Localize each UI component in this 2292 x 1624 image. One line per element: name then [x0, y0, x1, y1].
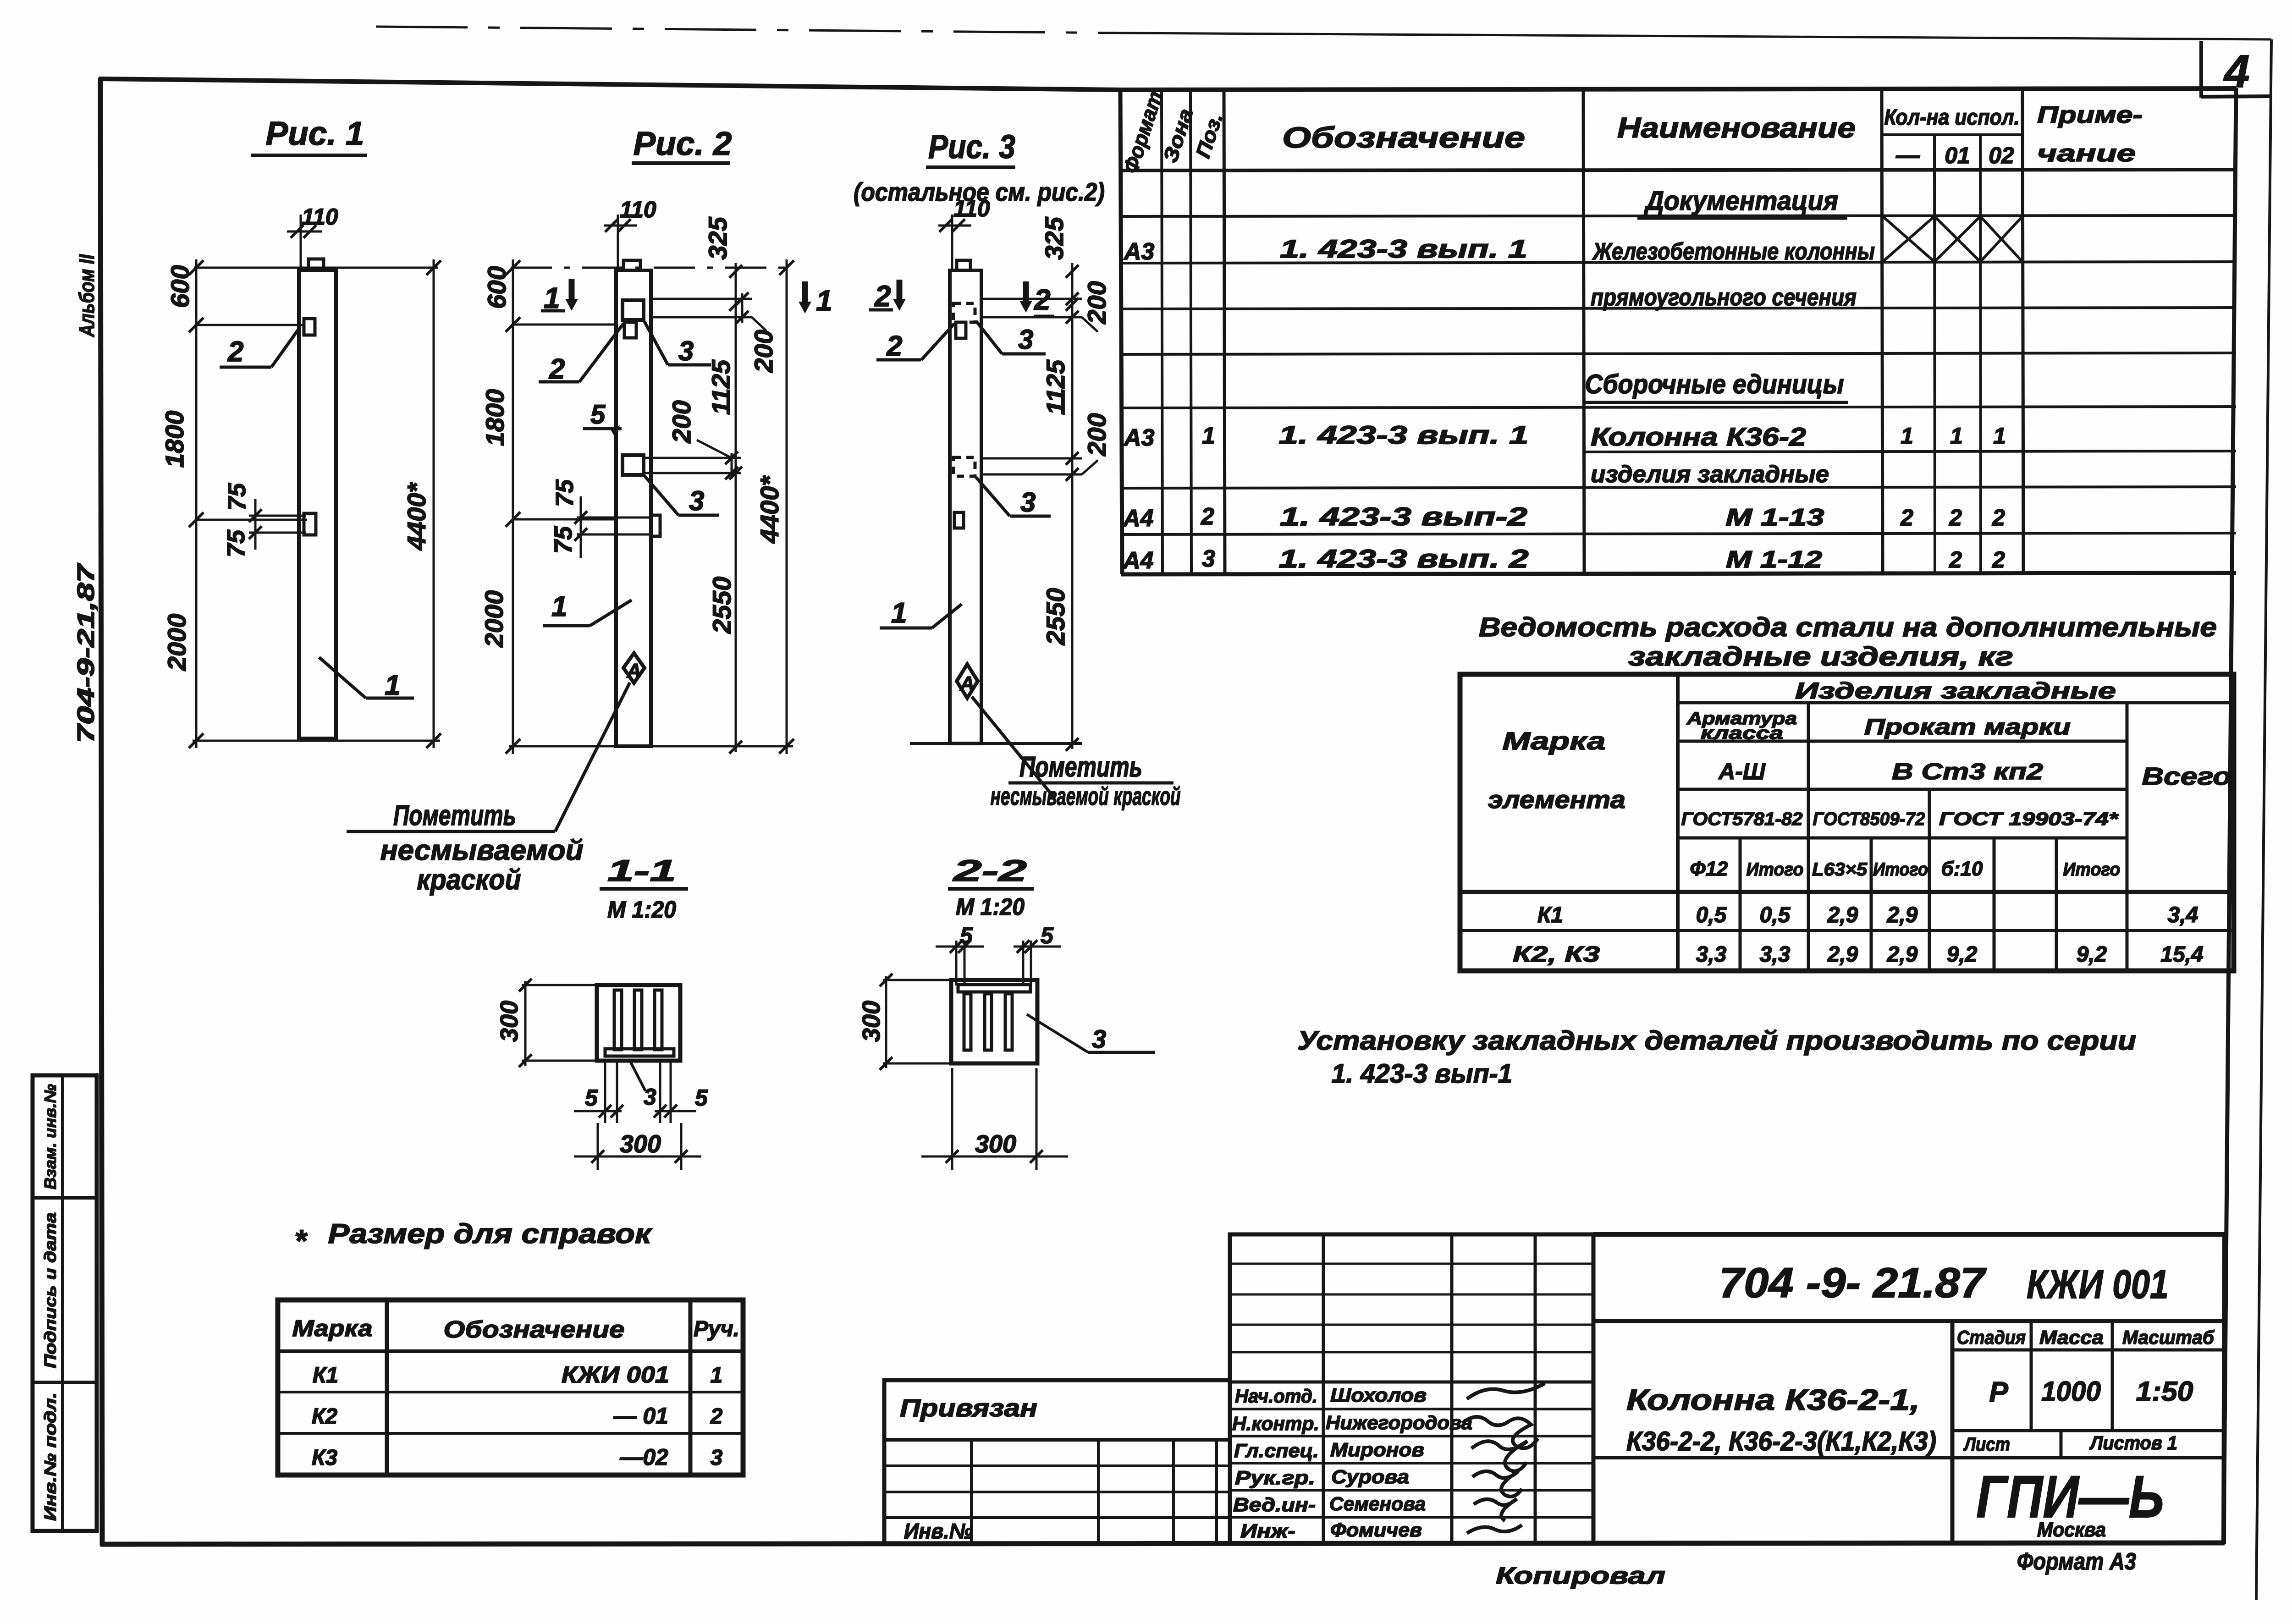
svg-text:Обозначение: Обозначение: [1282, 121, 1525, 154]
svg-text:— 01: — 01: [613, 1403, 668, 1429]
section 1-1 dims 5 3 5: [604, 1061, 606, 1123]
svg-text:Привязан: Привязан: [900, 1394, 1037, 1422]
svg-text:Установку закладных деталей: Установку закладных деталей производить …: [1297, 1026, 2136, 1056]
svg-text:1: 1: [816, 284, 832, 317]
svg-text:2: 2: [1900, 505, 1913, 530]
svg-text:Н.контр.: Н.контр.: [1232, 1413, 1319, 1434]
svg-text:Колонна К36-2-1,: Колонна К36-2-1,: [1626, 1383, 1920, 1416]
svg-text:2,9: 2,9: [1827, 903, 1858, 927]
svg-text:2000: 2000: [162, 614, 191, 672]
svg-text:М 1:20: М 1:20: [956, 894, 1025, 920]
svg-text:1-1: 1-1: [607, 853, 676, 887]
svg-text:3: 3: [689, 485, 704, 516]
svg-text:L63×5: L63×5: [1812, 859, 1868, 880]
svg-text:1: 1: [1993, 423, 2006, 449]
fig3 small plate left edge: [954, 512, 964, 528]
svg-text:Масштаб: Масштаб: [2122, 1327, 2215, 1348]
fig2 right dims 325/1125/2550: [735, 263, 737, 752]
svg-text:М 1:20: М 1:20: [607, 897, 676, 923]
svg-text:5: 5: [1041, 923, 1054, 948]
svg-text:1. 423-3 вып-2: 1. 423-3 вып-2: [1280, 502, 1527, 531]
svg-text:КЖИ 001: КЖИ 001: [2027, 1261, 2169, 1307]
svg-text:325: 325: [703, 216, 732, 259]
svg-text:Итого: Итого: [1747, 859, 1804, 880]
svg-text:1: 1: [1901, 423, 1913, 449]
svg-text:3,4: 3,4: [2168, 903, 2198, 927]
svg-text:Р: Р: [1989, 1376, 2008, 1408]
svg-text:—: —: [1895, 142, 1920, 169]
svg-text:9,2: 9,2: [2077, 942, 2107, 967]
svg-text:б:10: б:10: [1941, 858, 1983, 880]
fig1 110 pin: [300, 215, 302, 270]
fig3 section mark 2 right: [1023, 281, 1029, 303]
fig2 section mark 1 right: [802, 281, 808, 304]
signatures squiggles: [1467, 1383, 1545, 1399]
section 2-2 dim 300 left: [885, 976, 887, 1068]
svg-text:2,9: 2,9: [1827, 942, 1858, 967]
frame left border: [100, 78, 102, 1546]
svg-text:*: *: [294, 1223, 308, 1258]
svg-text:Ведомость расхода стали на: Ведомость расхода стали на дополнительны…: [1479, 612, 2217, 642]
privyazan table: [884, 1380, 1230, 1544]
svg-text:110: 110: [302, 204, 338, 230]
fig3 mid plate dashed: [953, 457, 975, 476]
section 1-1 dim 300 bottom: [597, 1123, 599, 1170]
section 2-2 dim 300 bottom: [951, 1068, 953, 1170]
frame right border: [2224, 88, 2236, 1544]
svg-text:3: 3: [1202, 545, 1215, 572]
svg-text:Рис. 3: Рис. 3: [928, 129, 1015, 165]
svg-text:А3: А3: [1123, 424, 1155, 451]
fig2 diamond A mark: [623, 653, 645, 683]
svg-text:2: 2: [874, 280, 891, 313]
svg-text:Руч.: Руч.: [694, 1317, 739, 1341]
svg-text:3: 3: [1092, 1024, 1106, 1053]
svg-text:1. 423-3 вып. 2: 1. 423-3 вып. 2: [1279, 544, 1529, 573]
svg-text:Сурова: Сурова: [1331, 1466, 1409, 1487]
svg-text:3,3: 3,3: [1760, 942, 1791, 967]
fig2 left dim chain: [512, 259, 514, 754]
svg-text:1000: 1000: [2041, 1376, 2101, 1407]
page number box: [2199, 41, 2203, 98]
fig1 column cap: [309, 259, 324, 270]
svg-text:КЖИ 001: КЖИ 001: [562, 1362, 669, 1387]
svg-text:Рис. 2: Рис. 2: [634, 126, 732, 162]
svg-text:75: 75: [551, 479, 579, 507]
svg-text:Всего: Всего: [2142, 763, 2231, 790]
svg-text:1: 1: [891, 597, 907, 629]
svg-text:5: 5: [590, 400, 606, 429]
top sheet-edge line right solid: [1123, 33, 2271, 39]
svg-text:Листов 1: Листов 1: [2089, 1432, 2177, 1453]
svg-text:А: А: [959, 672, 975, 695]
svg-text:Копировал: Копировал: [1496, 1563, 1665, 1589]
svg-text:3: 3: [1018, 324, 1033, 355]
svg-text:1: 1: [1950, 423, 1963, 449]
svg-text:Изделия закладные: Изделия закладные: [1795, 678, 2116, 704]
svg-text:Взам. инв.№: Взам. инв.№: [41, 1084, 60, 1189]
fig1 mid plate 75/75: [249, 515, 306, 517]
svg-text:Рук.гр.: Рук.гр.: [1235, 1467, 1315, 1488]
svg-text:110: 110: [953, 196, 990, 221]
svg-text:Наименование: Наименование: [1617, 112, 1856, 144]
svg-text:Москва: Москва: [2037, 1519, 2106, 1541]
svg-text:600: 600: [165, 265, 194, 308]
svg-text:К1: К1: [313, 1363, 338, 1387]
fig3 diamond A mark: [957, 664, 978, 698]
svg-text:600: 600: [482, 266, 511, 308]
svg-text:Пометить: Пометить: [1019, 751, 1142, 783]
fig3 column K3: [950, 270, 981, 743]
svg-text:110: 110: [620, 197, 656, 222]
svg-text:Стадия: Стадия: [1957, 1327, 2026, 1348]
svg-text:Масса: Масса: [2039, 1327, 2104, 1348]
steel table horizontals: [1678, 701, 2234, 705]
section 2-2 dims 5 top: [955, 941, 958, 985]
stadia massa masshtab: [2030, 1321, 2033, 1431]
svg-text:Обозначение: Обозначение: [444, 1316, 625, 1343]
svg-text:1125: 1125: [1041, 359, 1070, 415]
svg-text:Сборочные единицы: Сборочные единицы: [1585, 369, 1844, 399]
svg-text:2: 2: [1949, 547, 1962, 573]
svg-text:Подпись и дата: Подпись и дата: [41, 1212, 60, 1368]
fig1 embedded plate pos2: [304, 319, 315, 335]
svg-text:Лист: Лист: [1963, 1433, 2010, 1455]
left stamp boxes: [33, 1075, 97, 1531]
svg-text:5: 5: [960, 923, 973, 948]
svg-text:Рис. 1: Рис. 1: [266, 116, 364, 152]
svg-text:1. 423-3 вып-1: 1. 423-3 вып-1: [1332, 1059, 1513, 1089]
svg-text:Марка: Марка: [1503, 727, 1606, 755]
svg-text:изделия закладные: изделия закладные: [1591, 461, 1829, 488]
svg-text:9,2: 9,2: [1947, 942, 1978, 967]
svg-text:Итого: Итого: [1873, 859, 1928, 880]
svg-text:краской: краской: [417, 864, 521, 896]
svg-text:2: 2: [886, 330, 902, 362]
svg-text:2000: 2000: [479, 590, 508, 648]
svg-text:Пометить: Пометить: [393, 800, 516, 831]
svg-text:1125: 1125: [706, 359, 735, 415]
svg-text:К36-2-2, К36-2-3(К1,К2,К3): К36-2-2, К36-2-3(К1,К2,К3): [1626, 1426, 1936, 1456]
svg-text:3: 3: [644, 1084, 656, 1110]
section 1-1 plate view: [597, 985, 680, 1061]
svg-text:К2, К3: К2, К3: [1513, 942, 1600, 967]
svg-text:1: 1: [711, 1363, 723, 1387]
fig2 column K2: [616, 270, 651, 746]
svg-text:704 -9- 21.87: 704 -9- 21.87: [1719, 1260, 1987, 1306]
svg-text:1. 423-3 вып. 1: 1. 423-3 вып. 1: [1279, 420, 1529, 449]
fig2 mid 200 dim: [644, 457, 741, 459]
svg-text:А-Ш: А-Ш: [1718, 759, 1766, 784]
svg-text:2,9: 2,9: [1887, 942, 1918, 967]
svg-text:0,5: 0,5: [1760, 903, 1791, 927]
svg-text:класса: класса: [1701, 724, 1783, 743]
svg-text:5: 5: [585, 1085, 598, 1111]
svg-text:К2: К2: [312, 1404, 338, 1429]
svg-text:В Ст3 кп2: В Ст3 кп2: [1892, 759, 2043, 784]
svg-text:2550: 2550: [1041, 588, 1070, 646]
top sheet-edge dash-dot line: [376, 27, 1123, 33]
svg-text:1. 423-3 вып. 1: 1. 423-3 вып. 1: [1280, 234, 1527, 263]
svg-text:Итого: Итого: [2063, 859, 2121, 880]
fig2 mid 75/75 detail: [577, 517, 651, 519]
svg-text:Нач.отд.: Нач.отд.: [1235, 1385, 1317, 1407]
svg-text:1: 1: [551, 591, 567, 622]
fig3 110 pin: [951, 215, 953, 270]
svg-text:200: 200: [667, 400, 696, 443]
svg-text:02: 02: [1989, 143, 2014, 168]
fig2 top plate pos3: [623, 300, 644, 320]
X marks: [1883, 216, 2022, 262]
title block: [1593, 1232, 2225, 1237]
svg-text:Инв.№ подл.: Инв.№ подл.: [41, 1393, 60, 1521]
svg-text:Шохолов: Шохолов: [1330, 1384, 1427, 1406]
fig1 left dim chain: [195, 259, 198, 748]
svg-text:3: 3: [711, 1446, 723, 1470]
fig2 mid plate pos3: [623, 455, 644, 475]
svg-text:1800: 1800: [160, 411, 189, 468]
svg-text:5: 5: [695, 1085, 708, 1111]
svg-text:3: 3: [1020, 487, 1036, 517]
signatures table: [1230, 1234, 1593, 1544]
svg-text:2: 2: [710, 1404, 723, 1429]
steel table outer: [1460, 674, 2234, 971]
frame top border: [99, 79, 1121, 90]
svg-text:300: 300: [496, 1001, 523, 1042]
svg-text:Нижегородова: Нижегородова: [1326, 1412, 1472, 1433]
svg-text:Альбом II: Альбом II: [75, 254, 99, 337]
svg-text:75: 75: [222, 529, 250, 557]
frame bottom border: [100, 1543, 2225, 1544]
svg-text:закладные изделия, кг: закладные изделия, кг: [1628, 642, 2013, 672]
svg-text:А3: А3: [1123, 238, 1155, 265]
svg-text:2: 2: [1992, 505, 2005, 530]
steel table verticals: [1676, 674, 1680, 971]
svg-text:300: 300: [858, 1001, 885, 1042]
fig3 right dims: [1071, 263, 1074, 749]
svg-text:Вед.ин-: Вед.ин-: [1233, 1494, 1316, 1515]
svg-text:М 1-13: М 1-13: [1726, 504, 1824, 531]
svg-text:2,9: 2,9: [1887, 903, 1918, 927]
svg-text:ГОСТ5781-82: ГОСТ5781-82: [1681, 809, 1803, 829]
fig3 top 200 dim: [981, 298, 1082, 300]
svg-text:Ф12: Ф12: [1690, 858, 1728, 880]
svg-text:2: 2: [1949, 505, 1962, 530]
svg-text:75: 75: [550, 526, 577, 554]
fig2 110 pin: [617, 215, 619, 270]
svg-text:3: 3: [678, 336, 694, 366]
svg-text:прямоугольного сечения: прямоугольного сечения: [1591, 284, 1857, 311]
section 2-2 plate view: [951, 980, 1037, 1063]
svg-text:элемента: элемента: [1488, 786, 1625, 814]
fig3 top plate dashed: [953, 303, 975, 322]
svg-text:1:50: 1:50: [2136, 1376, 2193, 1407]
svg-text:Формат А3: Формат А3: [2017, 1548, 2136, 1575]
svg-text:несмываемой: несмываемой: [380, 835, 584, 866]
fig3 ground line: [910, 742, 1082, 745]
svg-text:Гл.спец.: Гл.спец.: [1234, 1440, 1319, 1461]
svg-text:300: 300: [975, 1130, 1016, 1158]
svg-text:4400*: 4400*: [755, 475, 784, 544]
svg-text:704-9-21,87: 704-9-21,87: [73, 563, 99, 743]
specification table grid: [1120, 88, 2236, 90]
svg-text:2: 2: [1201, 503, 1214, 530]
fig1 column K1: [299, 270, 336, 738]
marka table: [278, 1300, 743, 1475]
svg-text:Марка: Марка: [292, 1316, 373, 1341]
svg-text:2: 2: [1992, 547, 2005, 573]
svg-text:15,4: 15,4: [2160, 942, 2203, 967]
svg-text:несмываемой краской: несмываемой краской: [991, 782, 1181, 810]
outer right trim line: [2256, 39, 2271, 1600]
svg-text:2: 2: [227, 336, 243, 368]
svg-text:Миронов: Миронов: [1330, 1439, 1424, 1460]
section 1-1 dim 300 left: [524, 981, 527, 1066]
svg-text:325: 325: [1040, 216, 1069, 259]
svg-text:К1: К1: [1537, 903, 1563, 927]
svg-text:ГОСТ8509-72: ГОСТ8509-72: [1813, 809, 1925, 829]
fig3 mid 200 dim: [981, 457, 1082, 460]
svg-text:Документация: Документация: [1643, 186, 1838, 216]
svg-text:1800: 1800: [480, 389, 509, 446]
list row: [2060, 1431, 2063, 1458]
svg-text:Семенова: Семенова: [1329, 1493, 1426, 1514]
svg-text:2550: 2550: [707, 577, 736, 634]
svg-text:200: 200: [1082, 413, 1111, 456]
svg-text:Инв.№: Инв.№: [904, 1519, 973, 1543]
svg-text:А4: А4: [1122, 547, 1154, 574]
svg-text:чание: чание: [2037, 140, 2136, 167]
svg-text:3,3: 3,3: [1696, 942, 1727, 967]
svg-text:2-2: 2-2: [952, 853, 1027, 887]
svg-text:Инж-: Инж-: [1240, 1520, 1295, 1541]
svg-text:01: 01: [1945, 143, 1970, 168]
svg-text:Приме-: Приме-: [2037, 102, 2143, 128]
svg-text:200: 200: [1082, 281, 1111, 324]
fig2 right dim 4400: [786, 259, 788, 754]
svg-text:0,5: 0,5: [1696, 903, 1727, 927]
svg-text:А4: А4: [1122, 505, 1154, 532]
svg-text:Железобетонные колонны: Железобетонные колонны: [1592, 238, 1875, 265]
svg-text:Фомичев: Фомичев: [1330, 1519, 1422, 1541]
svg-text:Размер для справок: Размер для справок: [328, 1218, 653, 1249]
svg-text:75: 75: [223, 483, 251, 511]
svg-text:Прокат марки: Прокат марки: [1864, 715, 2071, 739]
svg-text:Колонна К36-2: Колонна К36-2: [1591, 422, 1806, 451]
svg-text:300: 300: [620, 1130, 661, 1158]
svg-text:ГОСТ 19903-74*: ГОСТ 19903-74*: [1939, 809, 2119, 829]
svg-text:200: 200: [749, 330, 778, 373]
svg-text:1: 1: [1202, 423, 1215, 449]
svg-text:М 1-12: М 1-12: [1726, 546, 1822, 573]
svg-text:—02: —02: [619, 1444, 668, 1470]
svg-text:А: А: [626, 660, 641, 682]
fig2 top 200 dim: [651, 298, 752, 300]
svg-text:4400*: 4400*: [402, 482, 431, 551]
svg-text:К3: К3: [312, 1446, 338, 1470]
svg-text:Кол-на испол.: Кол-на испол.: [1884, 105, 2020, 130]
fig1 right dim 4400: [433, 259, 435, 748]
